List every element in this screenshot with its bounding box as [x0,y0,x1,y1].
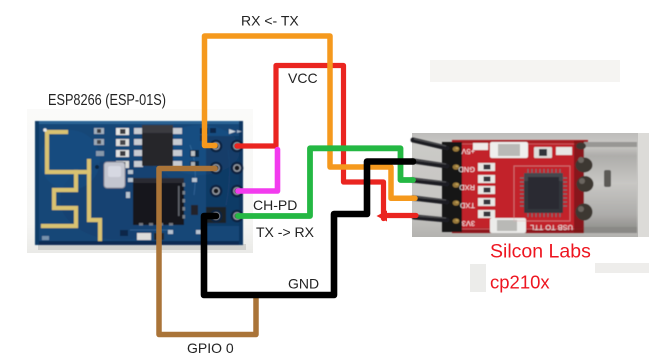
faint traces [130,145,230,230]
svg-text:RXD: RXD [459,183,475,192]
board/metal seam shadow [574,141,586,233]
ESP8266 board shadow [38,244,246,250]
wire black GND [204,162,413,296]
red arrowhead [377,211,388,222]
svg-text:RX <- TX: RX <- TX [241,13,299,29]
CP210x adapter U2 board [452,140,588,233]
2x4 pin header [206,136,243,226]
faint remnants below photo [470,264,486,292]
resistor column [478,163,495,218]
ESP8266 module U1 board [35,121,243,245]
svg-text:USB TO TTL: USB TO TTL [530,223,573,232]
svg-text:Silcon Labs: Silcon Labs [490,241,591,263]
svg-text:cp210x: cp210x [490,272,550,293]
flash chip [134,125,182,167]
faint smudge above right photo [430,60,620,82]
svg-text:+5V: +5V [461,147,475,156]
SMD specks left of flash [94,128,129,168]
wire red VCC [237,66,416,219]
svg-text:ESP8266 (ESP-01S): ESP8266 (ESP-01S) [48,92,166,109]
shield solder blobs [576,143,594,221]
svg-text:VCC: VCC [288,70,318,86]
svg-text:TXD: TXD [459,201,475,210]
crystal [104,162,125,188]
USB metal shell [584,142,637,233]
svg-text:GND: GND [458,165,475,174]
CP2102 chip [514,166,570,221]
wire orange RX<-TX [205,36,416,198]
M1 label [556,147,572,155]
extra specks [42,170,202,240]
via dot [43,128,47,132]
bottom fuse component [490,218,526,233]
svg-text:GND: GND [288,276,319,292]
antenna trace [43,132,100,239]
small components right column [137,135,207,240]
pin header block [473,143,488,150]
wire brown GPIO0 [159,169,256,335]
wire magenta CH-PD [238,150,278,192]
header pins (needles) [412,140,447,220]
silkscreen chevron [229,129,236,134]
svg-text:3V3: 3V3 [462,219,475,228]
svg-text:TX -> RX: TX -> RX [256,224,315,240]
ESP8266 module photo background [27,109,253,253]
svg-text:GPIO 0: GPIO 0 [187,340,234,356]
svg-text:CH-PD: CH-PD [253,197,297,213]
ESP8266EX chip [133,178,185,226]
top fuse component [490,142,528,158]
CP210x adapter photo background [412,133,649,237]
pin labels (upside down white) [458,147,475,228]
wire green TX->RX [238,148,413,216]
